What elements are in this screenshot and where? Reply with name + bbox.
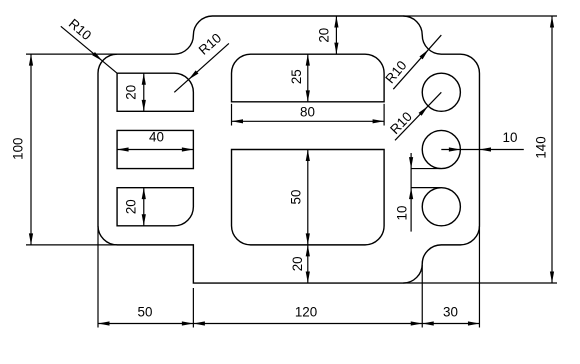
svg-text:100: 100 xyxy=(11,138,26,160)
hole 2 R10 middle xyxy=(422,130,460,168)
svg-text:30: 30 xyxy=(443,305,458,320)
svg-text:20: 20 xyxy=(317,28,332,43)
leader "R10" top-left fillet xyxy=(61,16,117,73)
leader "R10" slot A corner xyxy=(174,30,229,92)
svg-text:10: 10 xyxy=(503,130,518,145)
svg-text:R10: R10 xyxy=(387,109,415,137)
dimension "140" right vertical xyxy=(403,16,557,283)
dimension "80" slot D width xyxy=(232,104,385,126)
leader "R10" top ogee xyxy=(382,35,441,89)
svg-text:50: 50 xyxy=(289,190,304,205)
svg-text:20: 20 xyxy=(290,256,305,271)
svg-text:20: 20 xyxy=(124,85,139,100)
leader "R10" hole 1 xyxy=(387,92,441,140)
dimension "25" slot D height xyxy=(289,54,310,102)
part outline (200x140 plate) xyxy=(98,16,479,283)
dimension "10" hole 2 to right edge xyxy=(441,130,523,152)
dimension "20" slot A height xyxy=(124,73,146,111)
dimension "20" bottom web xyxy=(290,245,310,283)
dimension "50" slot E height xyxy=(289,150,310,245)
slot C 40x20 rounded bottom-right R10 xyxy=(117,188,193,226)
dimension "40" slot B width xyxy=(117,130,193,152)
hole 3 R10 bottom xyxy=(422,188,460,226)
hole 1 R10 top xyxy=(422,73,460,111)
slot D 80x25 rounded top corners R10 xyxy=(232,54,385,102)
svg-text:120: 120 xyxy=(295,305,317,320)
dimension "20" slot C height xyxy=(124,188,146,226)
svg-text:80: 80 xyxy=(300,105,315,120)
slot B 40x20 rectangle xyxy=(117,130,193,168)
dimension "100" left vertical xyxy=(11,54,118,245)
svg-text:R10: R10 xyxy=(66,16,94,43)
dimensions "50" "120" "30" bottom horizontal xyxy=(98,226,479,328)
svg-text:50: 50 xyxy=(138,305,153,320)
svg-text:10: 10 xyxy=(395,206,410,221)
svg-text:25: 25 xyxy=(289,69,304,84)
svg-text:140: 140 xyxy=(534,136,549,158)
svg-text:40: 40 xyxy=(149,130,164,145)
dimension "10" hole gap vertical xyxy=(395,153,441,232)
dimension "20" top drop xyxy=(317,16,339,54)
svg-text:R10: R10 xyxy=(382,58,409,86)
svg-text:R10: R10 xyxy=(196,30,224,57)
slot E 80x50 rounded bottom corners R10 xyxy=(232,150,385,245)
slot A 40x20 rounded top-right R10 xyxy=(117,73,193,111)
svg-text:20: 20 xyxy=(124,199,139,214)
